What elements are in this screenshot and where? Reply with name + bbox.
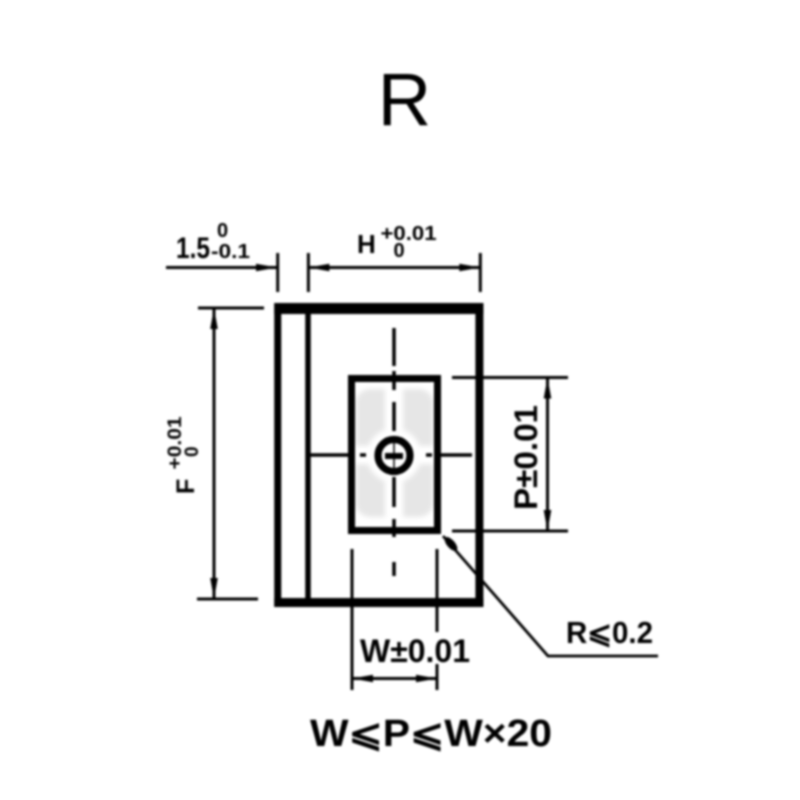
dim P text (rotated) xyxy=(508,405,544,510)
center hole circle xyxy=(378,440,410,472)
dim 1.5 line with arrow xyxy=(166,266,277,269)
svg-text:R⩽0.2: R⩽0.2 xyxy=(566,615,653,650)
dim W extension lines xyxy=(351,549,354,690)
dim P line with arrows xyxy=(546,378,549,532)
svg-text:0: 0 xyxy=(217,220,228,242)
gray slot shading xyxy=(350,382,440,524)
svg-text:0: 0 xyxy=(182,446,203,457)
svg-text:F: F xyxy=(172,479,200,494)
dim F line with arrows xyxy=(213,308,216,599)
leader line R xyxy=(443,536,658,656)
svg-text:-0.1: -0.1 xyxy=(211,241,250,263)
dim 1.5 extension line xyxy=(276,253,279,292)
leader dot xyxy=(442,535,459,553)
svg-text:W⩽P⩽W×20: W⩽P⩽W×20 xyxy=(310,713,552,755)
svg-text:+0.01: +0.01 xyxy=(381,223,437,245)
part outer rectangle xyxy=(274,303,483,607)
svg-text:W±0.01: W±0.01 xyxy=(360,633,470,669)
svg-text:P±0.01: P±0.01 xyxy=(508,405,544,510)
svg-text:H: H xyxy=(357,229,376,259)
centerline cross inside circle xyxy=(385,453,403,459)
svg-text:R: R xyxy=(378,58,431,141)
svg-text:0: 0 xyxy=(394,240,405,262)
dim F text (rotated) xyxy=(165,416,203,494)
svg-text:1.5: 1.5 xyxy=(176,232,210,265)
horizontal centerline xyxy=(310,453,472,457)
dim F extension lines xyxy=(198,307,264,310)
vertical centerline xyxy=(392,328,396,576)
dim P extension lines xyxy=(452,376,568,379)
part inner step line xyxy=(305,304,311,602)
slot inner rectangle xyxy=(352,379,438,531)
dim H extension lines xyxy=(307,253,310,292)
dim W line with arrows xyxy=(352,677,437,680)
dim H line with arrows xyxy=(308,266,480,269)
svg-text:+0.01: +0.01 xyxy=(165,416,186,469)
